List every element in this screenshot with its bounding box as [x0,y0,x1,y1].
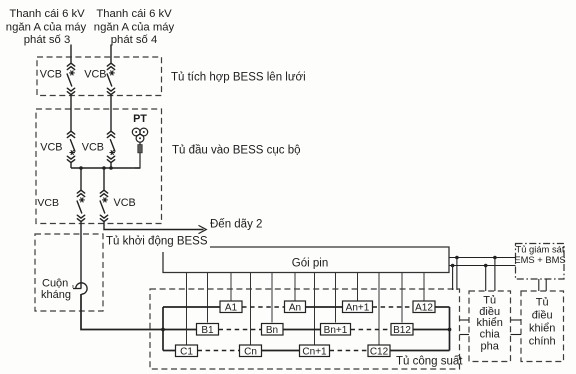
wire: battery drop to An+1 [357,273,359,301]
converter module B12 [391,324,413,336]
svg-text:A12: A12 [415,302,433,313]
svg-text:pha: pha [481,341,500,353]
svg-text:EMS + BMS: EMS + BMS [514,254,565,265]
svg-text:VCB: VCB [84,69,106,81]
wire: battery drop to B12 [401,273,403,323]
wire: LV bus inside input cabinet [71,167,140,169]
svg-text:An+1: An+1 [346,302,370,313]
svg-text:VCB: VCB [82,142,104,154]
svg-text:Cn: Cn [244,346,257,357]
breaker VCB 1 (grid-tie, left) [67,63,75,94]
cabinet: Tu tich hop BESS len luoi [37,57,162,96]
wire: EMS box drop 2 to main controller [545,279,547,291]
junction: right riser / B-phase [448,328,452,332]
wire: DC bus left riser [162,307,164,351]
converter module C1 [176,345,198,357]
wire: from gen-3 bus down into cabinets (x=71) [70,45,72,64]
svg-text:Tủ đầu vào BESS cục bộ: Tủ đầu vào BESS cục bộ [172,145,301,157]
breaker VCB 6 (feeder to string 2) [100,190,108,221]
junction on upper link at x=494.9 [493,256,497,260]
svg-text:Cuộn ,: Cuộn , [42,278,74,290]
wire: bus down to feeder-2 breaker (x=104) [103,168,105,190]
breaker VCB 5 (starter feeder) [77,190,85,221]
wire: B-row solid segments [283,329,321,331]
cabinet: Tu cong suat (power cabinet) [150,289,460,369]
svg-text:Bn: Bn [266,325,278,336]
svg-text:B1: B1 [201,325,214,336]
junction on bus at x=81 [79,166,83,170]
wire: battery pack to EMS upper link [449,257,516,259]
svg-text:Tủ: Tủ [536,297,549,309]
wire: gap segments around breakers on x=71 [70,95,72,131]
junction on lower link at x=485.7 [484,264,488,268]
svg-text:VCB: VCB [37,197,59,209]
converter module Bn [262,324,284,336]
wire: control drop to phase-split controller (from upper link) [494,258,496,292]
wire: DC bus right riser [449,307,451,351]
junction: left riser / B-phase feed [161,328,165,332]
svg-text:Bn+1: Bn+1 [324,325,348,336]
wire: battery drop to A12 [423,273,425,301]
node: bus label generator 3 [6,8,87,46]
svg-text:chính: chính [529,336,556,348]
wire: C-row dashed segments [198,350,240,352]
cabinet: Tu giam sat EMS + BMS [516,244,565,280]
svg-text:Gói pin: Gói pin [292,258,328,270]
wire: battery drop to Cn [250,273,252,345]
converter module Cn [240,345,262,357]
cabinet: Tu dieu khien chia pha [469,291,511,362]
converter module An [285,301,306,313]
converter module Cn+1 [300,345,330,357]
svg-text:A1: A1 [225,302,238,313]
wire: bus down to starter breaker (x=81) [80,168,82,190]
svg-text:VCB: VCB [114,197,136,209]
breaker VCB 2 (grid-tie, right) [107,63,115,94]
wire: control drop to phase-split controller (from lower link) [485,266,487,292]
junction on lower link at x=452.6 [451,264,455,268]
svg-text:Cn+1: Cn+1 [302,346,327,357]
cabinet: Tu dieu khien chinh [521,291,564,362]
wire: phase-split to main controller (upper stub) [511,319,522,321]
wire: battery drop to C12 [378,273,380,345]
svg-text:Tủ: Tủ [483,295,496,307]
svg-text:Tủ công suất: Tủ công suất [396,356,463,368]
converter module C12 [368,345,390,357]
node: bus label generator 4 [94,8,175,46]
svg-text:phát số 3: phát số 3 [24,34,70,46]
reactor L (cuon khang) [73,288,81,290]
junction on upper link at x=456.9 [455,256,459,260]
wire: EMS box drop 1 to main controller [538,279,540,291]
svg-text:khiển: khiển [477,317,503,329]
wire: control drop into power cabinet (from upper link) [456,258,458,291]
wire: phase-split to main controller (lower stub) [511,334,522,336]
svg-text:khiển: khiển [529,323,555,335]
wire: battery drop to C1 [186,273,188,345]
junction on bus at x=104 [102,166,106,170]
wire: PT branch down to bus [135,153,140,168]
wire: C-row solid segments [163,350,176,352]
wire: battery drop to Bn+1 [335,273,337,323]
svg-text:B12: B12 [393,325,411,336]
wire: B-row dashed segments [219,329,262,331]
wire: starter feeder down to reactor [80,222,82,289]
converter module An+1 [343,301,373,313]
svg-text:phát số 4: phát số 4 [111,34,157,46]
svg-text:Thanh cái 6 kV: Thanh cái 6 kV [9,8,85,20]
wire: A-row solid segments [163,306,220,308]
svg-text:ngăn A của máy: ngăn A của máy [94,22,175,34]
svg-text:kháng: kháng [41,289,71,301]
wire: power cabinet to phase-split controller (upper stub) [460,319,470,321]
svg-text:điều: điều [532,310,553,322]
cabinet: Cuon khang (BESS starter) [35,234,103,311]
svg-text:ngăn A của máy: ngăn A của máy [6,22,87,34]
svg-text:VCB: VCB [40,69,62,81]
svg-text:C1: C1 [180,346,193,357]
wire: feeder to string 2 with open arrowhead [104,222,204,230]
wire: battery drop to A1 [230,273,232,301]
svg-text:VCB: VCB [40,142,62,154]
wire: reactor output down and right to power cabinet B-phase bus [81,294,197,330]
svg-text:Tủ tích hợp BESS lên lưới: Tủ tích hợp BESS lên lưới [171,72,306,84]
wire: battery drop to An [294,273,296,301]
PT fuse [139,142,141,144]
wire: control drop into power cabinet (from lower link) [452,266,454,291]
converter module B1 [197,324,219,336]
svg-text:điều: điều [479,306,500,318]
svg-text:Đến dãy 2: Đến dãy 2 [210,219,262,231]
converter module Bn+1 [321,324,351,336]
wire: A-row dashed segments [242,306,285,308]
cabinet: Tu dau vao BESS cuc bo [36,109,162,224]
svg-text:C12: C12 [370,346,389,357]
wire: battery pack to EMS lower link [449,265,516,267]
wire: battery drop to Cn+1 [314,273,316,345]
breaker VCB 3 (input cabinet, left) [67,131,75,162]
svg-text:Tủ khởi động BESS: Tủ khởi động BESS [106,236,208,248]
svg-text:An: An [289,302,301,313]
wire: battery drop to B1 [207,273,209,323]
wire: power cabinet to phase-split controller (lower stub) [460,334,470,336]
wire: battery drop to Bn [271,273,273,323]
cabinet: Goi pin (battery pack) [163,247,449,273]
svg-text:Thanh cái 6 kV: Thanh cái 6 kV [96,8,172,20]
converter module A1 [220,301,242,313]
breaker VCB 4 (input cabinet, right) [107,131,115,162]
svg-text:chia: chia [480,328,501,340]
svg-text:Tủ giám sát: Tủ giám sát [516,244,565,255]
junction on bus at x=111 [109,166,113,170]
svg-text:PT: PT [133,113,147,125]
wire: from gen-4 bus down into cabinets (x=111) [110,45,112,64]
converter module A12 [413,301,435,313]
